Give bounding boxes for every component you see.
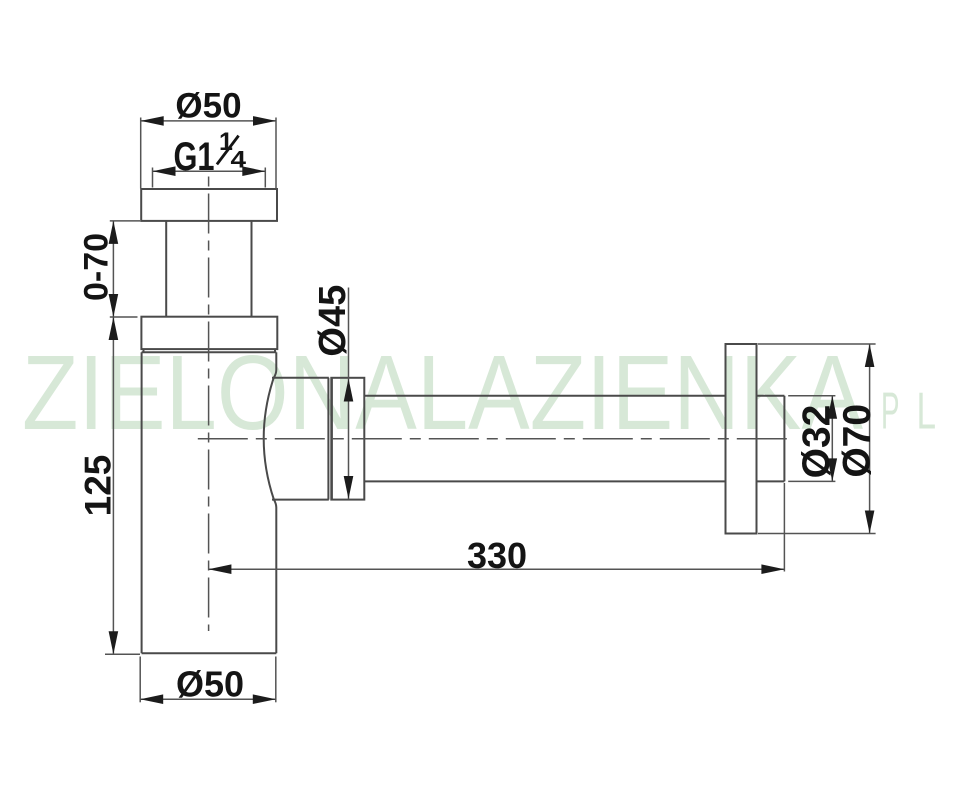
svg-text:330: 330 (467, 535, 527, 576)
svg-text:Ø70: Ø70 (836, 404, 879, 478)
dim Ø32 (788, 396, 838, 482)
svg-text:Ø50: Ø50 (175, 86, 241, 125)
outlet boss (272, 377, 329, 379)
svg-text:G1: G1 (174, 135, 215, 179)
nut (331, 378, 364, 500)
washer (327, 378, 329, 500)
dim 125 (78, 317, 141, 654)
svg-text:0-70: 0-70 (78, 233, 116, 301)
dim Ø70 (758, 344, 879, 534)
threaded tube (165, 221, 167, 317)
svg-text:Ø45: Ø45 (312, 285, 354, 357)
vertical centerline (208, 177, 210, 632)
dim 0-70 (78, 221, 141, 317)
svg-text:L: L (917, 383, 937, 441)
dim Ø45 (312, 285, 354, 499)
svg-text:Ø32: Ø32 (796, 405, 839, 479)
outlet fillet arc (264, 370, 277, 508)
lower flange (141, 317, 277, 349)
trap body (141, 352, 143, 653)
flange lip (143, 349, 145, 352)
svg-text:P: P (881, 383, 900, 441)
wall flange (726, 344, 757, 534)
horizontal pipe (364, 395, 725, 397)
dim G1 1/4 (153, 128, 266, 188)
svg-text:125: 125 (78, 455, 119, 517)
horizontal centerline (198, 438, 791, 440)
dim 330 (208, 483, 784, 576)
dim Ø50 top (141, 86, 276, 188)
top flange (141, 189, 277, 221)
svg-text:Ø50: Ø50 (176, 664, 244, 705)
svg-text:4: 4 (231, 147, 247, 174)
dim Ø50 bottom (140, 657, 276, 705)
